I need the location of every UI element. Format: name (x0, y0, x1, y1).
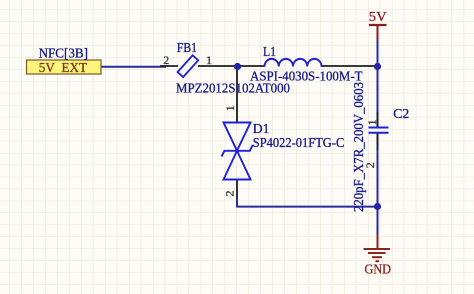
D1 designator label (253, 122, 270, 137)
C2 pin 1 number (365, 119, 379, 125)
net label NFC[3B] (39, 47, 88, 62)
FB1 designator label (177, 41, 197, 56)
svg-text:L1: L1 (263, 45, 276, 60)
wire: node A down to D1 pin 1 (236, 67, 238, 123)
D1 pin 1 number (223, 105, 237, 111)
svg-text:FB1: FB1 (177, 41, 197, 56)
FB1 pin 2 lead (160, 65, 178, 67)
svg-text:2: 2 (222, 191, 236, 197)
svg-text:C2: C2 (393, 107, 409, 122)
svg-text:1: 1 (365, 119, 379, 125)
svg-text:D1: D1 (253, 122, 270, 137)
C2 designator label (393, 107, 409, 122)
svg-text:1: 1 (223, 105, 237, 111)
D1 value label SP4022-01FTG-C (253, 136, 344, 151)
power port GND (ground symbol) (364, 234, 392, 278)
ferrite bead FB1 body (178, 55, 199, 77)
FB1 pin 1 number (206, 53, 212, 67)
L1 pin 1 lead from node A (238, 65, 265, 67)
TVS diode D1 body (bidirectional, two triangles) (222, 123, 253, 180)
L1 designator label (263, 45, 276, 60)
inductor L1 body (265, 59, 322, 67)
wire: 5V EXT flag to FB1 pin 2 (101, 66, 166, 68)
svg-text:ASPI-4030S-100M-T: ASPI-4030S-100M-T (250, 70, 363, 85)
wire: node C down to GND symbol (377, 207, 379, 235)
D1 pin 2 number (222, 191, 236, 197)
svg-text:220pF_X7R_200V_0603: 220pF_X7R_200V_0603 (352, 82, 367, 212)
power port 5V (bar symbol) (369, 10, 387, 40)
L1 pin 2 lead to node B (321, 65, 376, 67)
L1 value label ASPI-4030S-100M-T (250, 70, 363, 85)
svg-text:2: 2 (363, 162, 377, 168)
svg-text:1: 1 (206, 53, 212, 67)
svg-text:NFC[3B]: NFC[3B] (39, 47, 88, 62)
wire: C2 pin 2 down to node C (377, 134, 379, 206)
junction node A (FB1 / L1 / D1) (234, 63, 241, 70)
svg-text:GND: GND (365, 263, 392, 278)
wire: node B down to C2 pin 1 (377, 68, 379, 127)
power port flag 5V EXT (harness) (27, 60, 102, 76)
junction node B (L1 / 5V / C2) (374, 63, 381, 70)
FB1 value label MPZ2012S102AT000 (176, 82, 290, 97)
capacitor C2 plates (369, 128, 389, 133)
wire: D1 pin 2 down and right to node C (237, 180, 375, 207)
svg-text:SP4022-01FTG-C: SP4022-01FTG-C (253, 136, 344, 151)
svg-text:2: 2 (163, 53, 169, 67)
junction node C (D1 / C2 / GND) (374, 203, 381, 210)
wire: node B up to 5V power port (377, 39, 379, 64)
svg-text:5V EXT: 5V EXT (39, 61, 88, 76)
svg-text:5V: 5V (369, 10, 387, 25)
FB1 pin 1 lead to node A (198, 65, 237, 67)
C2 value label 220pF_X7R_200V_0603 (rotated) (352, 82, 367, 212)
FB1 pin 2 number (163, 53, 169, 67)
C2 pin 2 number (363, 162, 377, 168)
